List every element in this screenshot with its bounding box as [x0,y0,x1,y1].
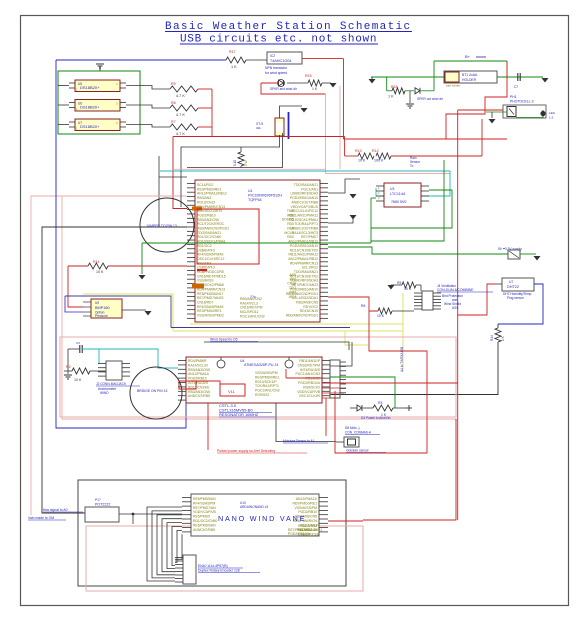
svg-text:PGC1/AN1/CN3: PGC1/AN1/CN3 [296,372,321,376]
svg-text:ENA?-A14-4P57(B): ENA?-A14-4P57(B) [198,564,228,568]
ground [409,91,411,103]
resistor R8 4.7K [170,105,198,111]
wire [119,513,182,515]
svg-text:B+: B+ [465,54,471,59]
svg-text:AN5/CN7/RB5: AN5/CN7/RB5 [193,528,215,532]
wire green d3 net [330,377,395,408]
svg-text:R3: R3 [378,401,382,405]
svg-text:VDD/VCAP/VB: VDD/VCAP/VB [193,510,217,514]
svg-text:RE0/PMD0/RE1: RE0/PMD0/RE1 [293,501,318,505]
wire green [520,253,536,255]
wire pink rain vertical [325,94,327,174]
svg-text:1 K: 1 K [312,87,318,91]
svg-text:10 K: 10 K [358,159,366,163]
transistor Q1 [217,360,225,368]
svg-text:BRIDGE ON PIN 13: BRIDGE ON PIN 13 [137,389,167,393]
resistor R17 1K [226,57,246,63]
svg-text:SPKR and wind dir: SPKR and wind dir [270,87,298,91]
wire blue long [56,60,186,428]
resistor network P1 [85,507,119,522]
svg-text:LED: LED [549,111,556,115]
svg-text:To: To [410,164,414,168]
ground arrow ph [489,119,496,124]
resistor R10 0.1 [240,147,242,152]
svg-text:Wind Speed to D5: Wind Speed to D5 [210,338,238,342]
wire black steps [330,342,352,366]
wire red [345,155,358,157]
wire [58,124,69,126]
svg-text:CN16/RD7/PM: CN16/RD7/PM [298,363,321,367]
svg-text:RESONATOR 16MHZ: RESONATOR 16MHZ [219,412,259,417]
wire yellow2 [173,331,368,345]
connector temperature sensor U7 [75,119,120,131]
resistor R13 10K [358,153,374,159]
svg-text:RE5/PMD5/AN: RE5/PMD5/AN [193,523,216,527]
svg-text:PGC1/AN1/CN3: PGC1/AN1/CN3 [240,314,265,318]
svg-text:U1: U1 [248,189,253,193]
svg-text:Plug sensor: Plug sensor [507,296,525,300]
wire red [363,419,456,520]
ground arrow [139,275,146,280]
diode D3 [357,405,362,411]
svg-text:1:3: 1:3 [549,116,554,120]
svg-text:RG6/SCK2: RG6/SCK2 [303,385,320,389]
svg-text:DHT22: DHT22 [507,285,519,289]
svg-text:4.7 K: 4.7 K [176,94,185,98]
svg-text:CON_CONMAS-A: CON_CONMAS-A [345,431,372,435]
resistor R16 1K [386,77,388,91]
wire [58,85,69,87]
wire [198,126,212,128]
svg-text:flow signal to A0: flow signal to A0 [43,508,68,512]
svg-text:RD1/OC2/CN50: RD1/OC2/CN50 [193,519,217,523]
svg-text:for wind speed: for wind speed [265,71,287,75]
wire black vane frame [78,480,346,586]
connector temperature sensor U5 [75,80,120,92]
svg-text:U9: U9 [95,301,99,305]
svg-text:RE7/PMD7/AN: RE7/PMD7/AN [193,506,216,510]
svg-text:R8: R8 [171,101,176,105]
capacitor C7 [517,73,519,81]
svg-text:4.7 K: 4.7 K [176,113,185,117]
svg-text:RB11/AN11/P: RB11/AN11/P [299,359,320,363]
svg-text:ATMEGA328P-PU J4: ATMEGA328P-PU J4 [244,363,278,367]
annotation red rect V11 [180,381,220,384]
sensor moisture M1 [344,437,359,447]
svg-text:RB3/AN3/CN5: RB3/AN3/CN5 [188,390,210,394]
svg-text:POT2222: POT2222 [95,503,110,507]
wire [126,125,170,128]
svg-text:R6: R6 [361,304,365,308]
svg-text:DS18B20+: DS18B20+ [80,85,100,90]
crystal X1 32kHz [275,118,284,136]
wire blue 1-wire bus [56,59,226,61]
capacitor C3 [79,345,81,353]
wire pink vane frame [86,526,363,591]
wire green adc net [142,242,371,244]
connector J5 encoder [183,555,196,584]
svg-text:R12: R12 [372,149,379,153]
wire green photocell [486,111,507,113]
wire red [458,109,503,111]
svg-text:1 W: 1 W [244,160,248,166]
svg-text:VDD/VCAP/VB: VDD/VCAP/VB [297,390,321,394]
svg-text:C3: C3 [76,341,80,345]
svg-text:J2 CONN-MAGJACK: J2 CONN-MAGJACK [96,382,127,386]
wire cyan A/D net [160,170,450,172]
svg-text:74AHC1G04: 74AHC1G04 [270,59,292,63]
wire pink net2 [62,196,456,419]
ground [64,374,72,376]
wire black crystal a [181,135,280,207]
svg-text:DS18B20+: DS18B20+ [80,124,100,129]
ground arrow [301,108,308,113]
wire yellow vertical [402,293,404,371]
wire red [455,419,457,421]
wire [328,218,353,223]
wire black [159,176,187,178]
svg-text:VSS/AVSS/PM: VSS/AVSS/PM [255,371,278,375]
wire cyan [82,349,178,368]
resistor R3 1K [363,407,373,409]
svg-text:RE0/PMD0/RE1: RE0/PMD0/RE1 [255,375,280,379]
svg-text:INT4/RA15/S: INT4/RA15/S [188,381,209,385]
svg-text:PH1: PH1 [510,95,517,99]
wire green sensor-block outline [58,71,140,134]
wire red long a1 [322,382,458,384]
wire pink net1 [31,196,187,515]
svg-text:CON-DUAL6/COMBINE: CON-DUAL6/COMBINE [437,288,474,292]
svg-text:Pulsed power supply so Aref De: Pulsed power supply so Aref Detecting [217,449,275,453]
svg-text:BT1 2xAA: BT1 2xAA [462,73,478,77]
svg-text:0.10: 0.10 [233,160,237,166]
ic U10 arduino nano [191,494,319,536]
svg-text:RA14/SCL3/I: RA14/SCL3/I [188,363,208,367]
wire [198,88,212,90]
wire yellow [190,323,403,325]
svg-text:HOLDER: HOLDER [462,78,477,82]
svg-text:10 K: 10 K [74,378,82,382]
svg-text:LTC1144: LTC1144 [390,192,405,196]
wire green [433,61,435,91]
wire [328,179,360,193]
svg-text:PGD2/RB10/A: PGD2/RB10/A [298,381,321,385]
svg-text:Duplex Rotary Encoder 128: Duplex Rotary Encoder 128 [198,569,240,573]
svg-text:R15: R15 [305,74,312,78]
svg-text:32k: 32k [256,126,261,130]
wire black [330,342,498,395]
ic U3 regulator [384,183,421,207]
svg-text:RG9/SS2: RG9/SS2 [255,393,269,397]
svg-text:SPKR out wind dir: SPKR out wind dir [417,97,444,101]
svg-text:VSS/AVSS/PMD2: VSS/AVSS/PMD2 [197,314,224,318]
resistor R9 4.7K [170,86,198,92]
wire slate data [171,327,350,329]
ic U1 PIC32 microcontroller [195,180,320,322]
sensor U9 pressure [91,299,122,318]
svg-text:INT4/RA15/S: INT4/RA15/S [300,368,321,372]
wire green B+ bump [434,60,507,62]
svg-text:U3: U3 [390,187,394,191]
svg-text:AN12/PMA11/: AN12/PMA11/ [296,497,317,501]
wire yellow i2c [83,294,173,331]
diode LED D7 [540,111,545,116]
wire green [497,76,543,78]
ground arrow [350,194,357,199]
svg-text:1 K: 1 K [388,95,394,99]
svg-text:C7: C7 [514,85,518,89]
svg-text:PGD2/RB10: PGD2/RB10 [188,377,207,381]
battery holder BT1 [444,71,497,83]
wire [68,348,80,350]
svg-text:batt holder: batt holder [446,84,460,88]
wire [126,105,170,108]
wire [322,82,331,84]
svg-text:TQFP64: TQFP64 [248,198,262,202]
wire black crystal b [187,133,283,168]
svg-text:Pressure: Pressure [95,314,108,318]
connector J4 fan [422,291,433,310]
wire green supply rail [328,247,508,254]
wire green [141,243,143,274]
svg-text:IC2: IC2 [270,54,275,58]
wire black jumper net [42,227,187,513]
diode D5 [278,80,285,87]
resistor R14 1K [495,328,501,342]
wire red [391,155,482,157]
wire red pulsed [207,403,209,450]
wire [198,107,212,109]
svg-text:RE5/PMD5/AN: RE5/PMD5/AN [193,497,216,501]
svg-text:WIND: WIND [100,391,109,395]
svg-text:R2: R2 [66,365,71,369]
wire [280,106,303,118]
wire red [261,82,279,84]
svg-text:AN12/PMA11/: AN12/PMA11/ [188,372,209,376]
resistor R12 100K [376,153,391,159]
svg-text:RF4/SDA5/PM: RF4/SDA5/PM [193,501,215,505]
svg-text:NANO WIND VANE: NANO WIND VANE [218,514,306,523]
svg-text:RD10/SCK1/P: RD10/SCK1/P [255,380,277,384]
wire green ph out [516,117,543,119]
ground arrow batt [371,77,373,79]
wire black stub [158,156,160,227]
svg-text:??o: ??o [250,295,256,299]
wire green [371,76,444,78]
photoresistor PH1 [503,105,546,118]
svg-text:R17: R17 [229,50,236,54]
svg-text:RE5/PMD5: RE5/PMD5 [193,515,210,519]
svg-text:BMP180: BMP180 [95,306,110,310]
svg-text:moisture sensor: moisture sensor [346,449,370,453]
ground GND1 [99,66,101,71]
annotation circle jumper [140,198,194,252]
inverter U2 74AHC1G04 [267,52,302,64]
svg-text:PGC1/AN1/CN3: PGC1/AN1/CN3 [255,389,280,393]
wire blue i2c data [65,296,171,328]
wire red corner [481,119,483,156]
svg-text:P1?: P1? [95,498,101,502]
wire red pin drop [173,137,187,209]
annotation circle bridge [130,367,182,419]
svg-text:PHOTOCELL-3: PHOTOCELL-3 [510,100,534,104]
resistor R15 [287,82,308,84]
svg-text:RD4/PMWR: RD4/PMWR [188,359,207,363]
wire black wind net [204,342,349,350]
svg-text:10 K: 10 K [96,270,104,274]
svg-text:ASS: ASS [452,306,458,310]
svg-text:RB0/AN0/CN2/PGD1: RB0/AN0/CN2/PGD1 [286,314,318,318]
wire bus vane [147,507,182,581]
ic U4 ATMEGA328 [186,357,322,403]
svg-text:Moisture Sensor to A1: Moisture Sensor to A1 [283,439,315,443]
svg-text:PGD2/RB10/A: PGD2/RB10/A [288,532,311,536]
svg-text:D3 Power to Ana/Vin: D3 Power to Ana/Vin [361,416,391,420]
svg-text:PIC32MX695F512H: PIC32MX695F512H [248,194,282,198]
ground arrow [145,311,152,316]
svg-text:100 K: 100 K [374,159,384,163]
wire red moisture frame [335,311,427,453]
wire green u3 loop [370,198,372,243]
wire [126,86,170,90]
wire red [458,284,495,315]
wire [58,104,69,106]
svg-text:R5: R5 [397,281,401,285]
svg-text:RB3/AN3/CN5: RB3/AN3/CN5 [188,368,210,372]
wire red pull-up bus [211,89,213,137]
svg-text:AN5/CN7/RB5: AN5/CN7/RB5 [188,394,210,398]
wire red battery feed [446,61,507,139]
svg-text:TCK/RA1/RPT1: TCK/RA1/RPT1 [255,384,279,388]
svg-text:7660 5V0: 7660 5V0 [391,200,406,204]
svg-text:Vain made to OM: Vain made to OM [28,516,54,520]
wire [122,309,146,311]
annotation red rect pins2 [179,381,196,389]
power flag [406,407,412,409]
wire pink section frame [60,337,456,417]
ground arrow [542,78,549,83]
bus entry blue bar [288,112,290,139]
wire blue [65,296,83,312]
svg-text:RD1/OC2: RD1/OC2 [305,377,320,381]
ground arrow [330,83,337,88]
wire red r6 feed [328,297,378,311]
svg-text:R13: R13 [355,149,362,153]
svg-text:D8 Mois.,): D8 Mois.,) [345,426,360,430]
svg-text:R9: R9 [171,82,176,86]
wire red u4 right [286,377,322,379]
connector J2 anemometer [106,361,122,380]
pin highlight [192,207,202,211]
wire red main right [457,110,459,520]
svg-text:NPN transistor: NPN transistor [265,66,288,70]
ic U7 DHT22 humidity [502,278,534,291]
wire [246,59,267,61]
ground arrow [534,256,541,261]
svg-text:10 K: 10 K [377,314,385,318]
wire black moisture link [276,403,336,442]
regulator U8 [508,250,520,259]
svg-text:R14: R14 [490,335,494,341]
svg-text:4.7 K: 4.7 K [176,132,185,136]
wire blue dht data [498,284,543,324]
svg-text:1 K: 1 K [231,65,237,69]
transistor Q2 [285,360,293,368]
svg-text:R16: R16 [391,85,398,89]
wire red [68,266,83,307]
connector temperature sensor U6 [75,100,120,112]
svg-text:INT4: INT4 [289,295,296,299]
wire green vreg feed [371,160,444,241]
svg-text:RD0: RD0 [287,235,294,239]
diode D6 [405,90,414,92]
wire pink adc feed [173,168,326,170]
annotation red rect pins [197,209,259,264]
wire red a-link [325,398,327,436]
wire red [302,58,344,60]
wire red main power rail [173,136,345,138]
resistor R7 4.7K [170,124,198,130]
svg-text:R7: R7 [171,120,176,124]
svg-text:OSC1/CLKI/R: OSC1/CLKI/R [299,394,321,398]
svg-text:VSS/AVSS/PM: VSS/AVSS/PM [294,506,317,510]
svg-text:V11: V11 [228,389,236,394]
svg-text:JUMPER TO PIN 13: JUMPER TO PIN 13 [146,224,177,228]
connector J3 [330,360,340,398]
svg-text:ARDUINONANO v3: ARDUINONANO v3 [240,505,268,509]
svg-text:DS18B20+: DS18B20+ [80,105,100,110]
svg-text:U7: U7 [509,280,513,284]
